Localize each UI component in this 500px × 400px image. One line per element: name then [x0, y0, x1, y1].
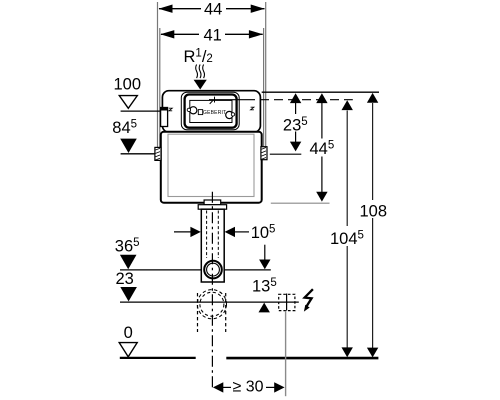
svg-text:365: 365	[115, 237, 140, 256]
svg-text:41: 41	[204, 26, 222, 44]
extension line 41-left	[159, 28, 161, 147]
23.5 lower reference line	[270, 153, 302, 155]
dimension 44	[159, 8, 265, 10]
level 100 line	[121, 110, 161, 112]
level 23 filled triangle	[120, 287, 137, 301]
svg-text:235: 235	[283, 116, 308, 135]
dimension 41	[161, 33, 263, 35]
svg-text:105: 105	[251, 224, 276, 243]
cistern protection frame (upper box)	[162, 91, 260, 133]
44.5 lower reference line	[271, 202, 330, 204]
level 84.5 filled triangle	[120, 139, 137, 153]
drain elbow dashed circles	[197, 290, 226, 319]
flush pipe inner dashed walls	[206, 211, 208, 259]
svg-text:135: 135	[252, 277, 277, 296]
geberit logo box	[198, 110, 202, 115]
level 36.5 filled triangle	[120, 255, 137, 269]
wall bracket right	[261, 147, 267, 160]
electrical conduit dashed box	[279, 294, 295, 310]
top reference line right	[262, 91, 379, 93]
svg-text:845: 845	[112, 119, 137, 138]
svg-text:100: 100	[114, 76, 142, 94]
service opening outer line	[181, 92, 239, 129]
level 100 open triangle	[119, 96, 137, 109]
dimension 23.5	[295, 103, 297, 142]
svg-text:0: 0	[124, 324, 133, 342]
left screw	[187, 108, 190, 111]
svg-text:445: 445	[310, 140, 335, 159]
flush plate	[190, 100, 232, 122]
flush pipe	[201, 209, 224, 282]
svg-text:1045: 1045	[330, 229, 364, 248]
outlet elbow circle	[204, 261, 222, 279]
extension line 44-right	[265, 2, 267, 146]
dimension 44.5	[321, 103, 323, 192]
wall bracket left	[155, 147, 161, 160]
extension line 44-left	[157, 2, 159, 147]
flush plate right button	[226, 111, 233, 118]
dimension 13.5	[264, 245, 266, 260]
conduit line below	[285, 311, 287, 396]
dimension 10.5	[174, 231, 191, 233]
squiggly water-flow arrow	[196, 65, 205, 79]
dimension 108	[372, 103, 374, 348]
flush outlet stub	[204, 200, 221, 205]
plate tick slash	[210, 101, 213, 104]
svg-text:44: 44	[204, 1, 222, 19]
svg-text:GEBERIT: GEBERIT	[203, 110, 226, 116]
conduit cable	[286, 294, 288, 311]
plate centre tick	[214, 97, 216, 103]
right screw	[231, 113, 234, 116]
flush pipe flange	[198, 205, 226, 210]
dimension >=30	[222, 386, 231, 388]
svg-text:R1/2: R1/2	[184, 48, 213, 67]
level 36.5 line	[120, 269, 201, 271]
service opening thick frame	[185, 95, 237, 128]
level 0 open triangle	[119, 343, 137, 357]
floor line right segment	[226, 357, 378, 360]
svg-text:≥ 30: ≥ 30	[233, 378, 264, 395]
level 84.5 line	[121, 153, 155, 155]
svg-text:23: 23	[116, 270, 134, 288]
z-mark left	[169, 108, 172, 111]
floor line left segment	[120, 357, 196, 359]
center line	[211, 192, 213, 391]
z-mark right	[251, 107, 254, 110]
cistern body	[161, 132, 262, 203]
extension line 41-right	[263, 28, 265, 146]
svg-text:108: 108	[360, 203, 388, 221]
level 23 line	[120, 301, 299, 303]
flush plate level reference (dash-dot)	[209, 99, 246, 101]
flush plate left button	[190, 107, 197, 114]
drain pipe dashed sides	[197, 293, 199, 332]
cistern body inner line	[168, 134, 254, 196]
dimension 104.5	[346, 111, 348, 349]
lightning symbol	[305, 289, 313, 306]
supply connection	[161, 108, 168, 127]
